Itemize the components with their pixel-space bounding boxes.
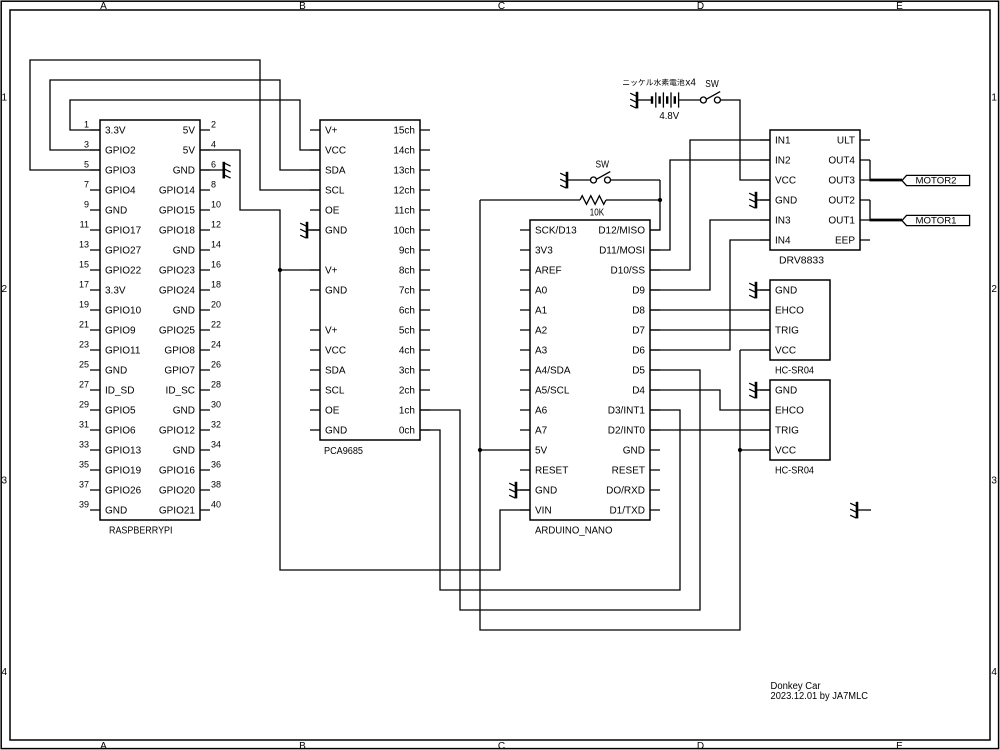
svg-text:DO/RXD: DO/RXD [606, 486, 645, 497]
svg-text:GND: GND [325, 426, 347, 437]
svg-text:ID_SD: ID_SD [105, 386, 134, 397]
IC PCA9685 body [320, 120, 420, 440]
IC DRV8833 pin stubs [760, 140, 870, 240]
ground symbol at RASPBERRYPI pin6 [224, 162, 231, 179]
svg-text:VCC: VCC [775, 446, 796, 457]
svg-text:HC-SR04: HC-SR04 [775, 365, 814, 376]
junction dot battery net at PCA9685 V+ [278, 268, 282, 272]
svg-text:1ch: 1ch [399, 406, 415, 417]
wire SW2 ground lead [568, 179, 590, 181]
ground symbol floating near E3 [850, 502, 871, 519]
svg-text:10ch: 10ch [393, 226, 415, 237]
wire net CH1: PCA9685 1ch to ARDUINO D5 [420, 370, 700, 610]
svg-text:GPIO27: GPIO27 [105, 246, 142, 257]
svg-text:8ch: 8ch [399, 266, 415, 277]
svg-text:A: A [100, 1, 107, 12]
svg-text:A1: A1 [535, 306, 548, 317]
svg-text:GPIO13: GPIO13 [105, 446, 142, 457]
svg-text:D2/INT0: D2/INT0 [608, 426, 646, 437]
svg-text:ULT: ULT [837, 136, 855, 147]
svg-text:3.3V: 3.3V [105, 286, 126, 297]
svg-text:A4/SDA: A4/SDA [535, 366, 571, 377]
wire battery positive to SW1 [679, 99, 701, 101]
svg-text:GPIO9: GPIO9 [105, 326, 136, 337]
svg-text:GPIO23: GPIO23 [159, 266, 196, 277]
wire net SCL: RASPBERRYPI pin5 GPIO3 to PCA9685 SCL [30, 60, 320, 190]
svg-text:RESET: RESET [612, 466, 645, 477]
IC RASPBERRYPI pin numbers [79, 119, 221, 509]
svg-text:3: 3 [991, 475, 997, 486]
svg-text:DRV8833: DRV8833 [779, 255, 824, 266]
svg-text:SW: SW [705, 79, 719, 90]
wire DRV8833 OUT2 to MOTOR1 bus [869, 200, 871, 220]
svg-text:26: 26 [211, 359, 221, 369]
svg-text:A3: A3 [535, 346, 548, 357]
ground symbol at ARDUINO GND left [509, 482, 516, 499]
ground symbol at battery negative [630, 92, 637, 109]
svg-text:V+: V+ [325, 126, 338, 137]
svg-text:TRIG: TRIG [775, 326, 799, 337]
svg-text:2: 2 [2, 284, 8, 295]
svg-text:GPIO10: GPIO10 [105, 306, 142, 317]
resistor R 10K [580, 196, 606, 205]
svg-text:33: 33 [79, 439, 89, 449]
svg-text:A5/SCL: A5/SCL [535, 386, 570, 397]
label nickel-metal hydride battery x4 [623, 79, 684, 86]
svg-text:A0: A0 [535, 286, 548, 297]
wire net ECHO1: ARDUINO D8 to HC-SR04 upper EHCO [650, 309, 770, 311]
svg-text:IN3: IN3 [775, 216, 791, 227]
svg-text:RESET: RESET [535, 466, 568, 477]
svg-text:4.8V: 4.8V [659, 111, 679, 122]
junction dot D12/MISO net [658, 198, 662, 202]
svg-text:GND: GND [173, 246, 195, 257]
svg-text:D10/SS: D10/SS [611, 266, 646, 277]
svg-text:B: B [299, 741, 306, 750]
svg-text:38: 38 [211, 479, 221, 489]
junction dot +5V at ARDUINO 5V [478, 448, 482, 452]
svg-text:25: 25 [79, 359, 89, 369]
wire DRV8833 OUT4 to MOTOR2 bus [869, 160, 871, 180]
svg-text:27: 27 [79, 379, 89, 389]
wire net IN1: ARDUINO D10/SS to DRV8833 IN1 [650, 140, 770, 270]
svg-text:4: 4 [211, 139, 216, 149]
IC RASPBERRYPI pin stubs [90, 130, 210, 510]
svg-text:15ch: 15ch [393, 126, 415, 137]
svg-text:10: 10 [211, 199, 221, 209]
svg-text:13: 13 [79, 239, 89, 249]
junction dot +5V at HC-SR04 lower VCC [738, 448, 742, 452]
svg-text:GND: GND [105, 506, 127, 517]
svg-text:11ch: 11ch [394, 206, 415, 217]
IC HC-SR04 lower pin stubs [760, 390, 770, 450]
wire battery negative lead [638, 99, 652, 101]
IC ARDUINO_NANO pin names [535, 226, 645, 517]
wire net IN2: ARDUINO D11/MOSI to DRV8833 IN2 [650, 160, 770, 250]
svg-text:IN1: IN1 [775, 136, 791, 147]
svg-text:6ch: 6ch [399, 306, 415, 317]
svg-text:15: 15 [79, 259, 89, 269]
svg-text:C: C [498, 1, 505, 12]
svg-text:OUT1: OUT1 [828, 216, 855, 227]
wire net SDA: RASPBERRYPI pin3 GPIO2 to PCA9685 SDA [50, 80, 320, 170]
svg-text:30: 30 [211, 399, 221, 409]
svg-text:GPIO25: GPIO25 [159, 326, 196, 337]
wire HC-SR04 lower GND to ground [757, 389, 770, 391]
svg-text:GND: GND [775, 386, 797, 397]
svg-text:SCK/D13: SCK/D13 [535, 226, 577, 237]
svg-text:3: 3 [2, 475, 8, 486]
svg-text:SW: SW [596, 160, 610, 171]
svg-text:ARDUINO_NANO: ARDUINO_NANO [535, 526, 613, 537]
svg-text:GND: GND [775, 286, 797, 297]
IC DRV8833 pin names [775, 136, 855, 247]
svg-text:4: 4 [2, 667, 8, 678]
svg-text:D11/MOSI: D11/MOSI [599, 246, 645, 257]
svg-text:31: 31 [79, 419, 89, 429]
svg-text:EHCO: EHCO [775, 306, 804, 317]
svg-text:x4: x4 [685, 77, 696, 88]
svg-text:37: 37 [79, 479, 89, 489]
wire RASPBERRYPI pin6 GND to ground [200, 169, 223, 171]
svg-text:SCL: SCL [325, 186, 345, 197]
svg-text:12ch: 12ch [393, 186, 415, 197]
IC HC-SR04 upper pin stubs [760, 290, 770, 350]
svg-text:32: 32 [211, 419, 221, 429]
net flag MOTOR1 [902, 215, 970, 226]
wire net 3V3: RASPBERRYPI pin1 3.3V to PCA9685 VCC [70, 100, 320, 150]
svg-text:5V: 5V [535, 446, 548, 457]
svg-text:10K: 10K [590, 208, 605, 219]
svg-text:D3/INT1: D3/INT1 [608, 406, 646, 417]
svg-text:RASPBERRYPI: RASPBERRYPI [109, 526, 173, 537]
wire net CH0: PCA9685 0ch to ARDUINO D3/INT1 [420, 410, 680, 590]
svg-text:GPIO26: GPIO26 [105, 486, 142, 497]
IC HC-SR04 lower body [770, 380, 830, 460]
svg-text:9ch: 9ch [399, 246, 415, 257]
svg-text:VCC: VCC [325, 146, 346, 157]
svg-text:29: 29 [79, 399, 89, 409]
svg-text:21: 21 [79, 319, 89, 329]
IC PCA9685 pin names [325, 126, 415, 437]
wire net +5V logic: 10K resistor to ARDUINO 5V and HC-SR04 VCC [480, 200, 770, 630]
svg-text:GPIO3: GPIO3 [105, 166, 136, 177]
svg-text:GPIO15: GPIO15 [159, 206, 196, 217]
svg-text:E: E [896, 741, 903, 750]
svg-text:D8: D8 [632, 306, 645, 317]
svg-text:A: A [100, 741, 107, 750]
svg-text:4: 4 [991, 667, 997, 678]
bus wire MOTOR2 [870, 179, 903, 182]
svg-text:VCC: VCC [775, 176, 796, 187]
svg-text:GND: GND [173, 306, 195, 317]
svg-text:GPIO5: GPIO5 [105, 406, 136, 417]
net flag MOTOR2 [902, 175, 970, 186]
svg-text:GND: GND [325, 286, 347, 297]
svg-text:B: B [299, 1, 306, 12]
IC ARDUINO_NANO pin stubs [520, 230, 660, 510]
svg-text:19: 19 [79, 299, 89, 309]
svg-text:OE: OE [325, 406, 340, 417]
wire net IN3: ARDUINO D9 to DRV8833 IN3 [650, 220, 770, 290]
svg-text:0ch: 0ch [399, 426, 415, 437]
svg-text:SDA: SDA [325, 166, 346, 177]
svg-text:TRIG: TRIG [775, 426, 799, 437]
ground symbol at PCA9685 GND 10ch [300, 222, 307, 239]
svg-text:GPIO4: GPIO4 [105, 186, 136, 197]
svg-text:MOTOR2: MOTOR2 [916, 176, 957, 187]
IC RASPBERRYPI body [100, 120, 200, 520]
svg-text:40: 40 [211, 499, 221, 509]
svg-text:EHCO: EHCO [775, 406, 804, 417]
ground symbol at HC-SR04 upper GND [749, 282, 756, 299]
svg-text:HC-SR04: HC-SR04 [775, 465, 814, 476]
svg-text:GND: GND [173, 406, 195, 417]
svg-text:D5: D5 [632, 366, 645, 377]
svg-text:22: 22 [211, 319, 221, 329]
svg-text:V+: V+ [325, 266, 338, 277]
wire PCA9685 GND to ground [308, 229, 320, 231]
svg-text:GPIO6: GPIO6 [105, 426, 136, 437]
svg-text:5ch: 5ch [399, 326, 415, 337]
wire SW1 to DRV8833 VCC [721, 100, 770, 180]
svg-text:2023.12.01 by JA7MLC: 2023.12.01 by JA7MLC [771, 691, 869, 702]
svg-text:C: C [498, 741, 505, 750]
svg-text:IN4: IN4 [775, 236, 791, 247]
svg-text:A7: A7 [535, 426, 548, 437]
switch SW1 [700, 92, 720, 103]
svg-text:35: 35 [79, 459, 89, 469]
wire ARDUINO GND to ground [517, 489, 530, 491]
svg-text:VIN: VIN [535, 506, 552, 517]
wire net +5V battery: RASPBERRYPI pin4 5V / PCA9685 V+ / ARDUINO VIN [200, 150, 530, 570]
svg-text:36: 36 [211, 459, 221, 469]
svg-text:GND: GND [173, 166, 195, 177]
wire net ECHO2: ARDUINO D4 to HC-SR04 lower EHCO [650, 390, 770, 410]
IC HC-SR04 upper body [770, 280, 830, 360]
svg-text:SCL: SCL [325, 386, 345, 397]
svg-text:GND: GND [535, 486, 557, 497]
svg-text:1: 1 [991, 92, 997, 103]
svg-text:D6: D6 [632, 346, 645, 357]
bus wire MOTOR1 [870, 219, 903, 222]
svg-text:7: 7 [84, 179, 89, 189]
svg-text:3ch: 3ch [399, 366, 415, 377]
battery BT 4.8V NiMH x4 [652, 92, 679, 107]
svg-text:D: D [697, 1, 704, 12]
svg-text:5V: 5V [183, 146, 196, 157]
svg-text:23: 23 [79, 339, 89, 349]
svg-text:24: 24 [211, 339, 221, 349]
svg-text:GPIO21: GPIO21 [159, 506, 196, 517]
IC ARDUINO_NANO body [530, 220, 650, 520]
svg-text:GPIO22: GPIO22 [105, 266, 142, 277]
svg-text:A6: A6 [535, 406, 548, 417]
svg-text:GPIO7: GPIO7 [164, 366, 195, 377]
svg-text:14: 14 [211, 239, 221, 249]
svg-text:5: 5 [84, 159, 89, 169]
svg-text:GPIO11: GPIO11 [105, 346, 141, 357]
svg-text:GND: GND [173, 446, 195, 457]
svg-text:20: 20 [211, 299, 221, 309]
svg-text:GPIO24: GPIO24 [159, 286, 196, 297]
svg-text:OE: OE [325, 206, 340, 217]
IC HC-SR04 lower pin names [775, 386, 804, 457]
svg-text:6: 6 [211, 159, 216, 169]
IC DRV8833 body [770, 130, 860, 250]
wire net TRIG1: ARDUINO D7 to HC-SR04 upper TRIG [650, 329, 770, 331]
svg-text:2: 2 [991, 284, 997, 295]
svg-text:GPIO2: GPIO2 [105, 146, 136, 157]
svg-text:VCC: VCC [775, 346, 796, 357]
svg-text:D4: D4 [632, 386, 645, 397]
wire DRV8833 GND to ground [757, 199, 770, 201]
svg-text:17: 17 [79, 279, 89, 289]
svg-text:PCA9685: PCA9685 [324, 446, 363, 457]
svg-text:OUT4: OUT4 [828, 156, 855, 167]
switch SW2 [591, 172, 611, 183]
svg-text:OUT3: OUT3 [828, 176, 855, 187]
svg-text:GPIO20: GPIO20 [159, 486, 196, 497]
svg-text:5V: 5V [183, 126, 196, 137]
svg-text:13ch: 13ch [393, 166, 415, 177]
wire SW2 to D12/MISO net [611, 179, 660, 181]
svg-text:AREF: AREF [535, 266, 562, 277]
svg-text:ID_SC: ID_SC [166, 386, 195, 397]
svg-text:GPIO14: GPIO14 [159, 186, 196, 197]
svg-text:8: 8 [211, 179, 216, 189]
svg-text:7ch: 7ch [399, 286, 415, 297]
svg-text:E: E [896, 1, 903, 12]
svg-text:D7: D7 [632, 326, 645, 337]
ground symbol at HC-SR04 lower GND [749, 382, 756, 399]
svg-text:16: 16 [211, 259, 221, 269]
svg-text:28: 28 [211, 379, 221, 389]
svg-text:4ch: 4ch [399, 346, 415, 357]
svg-text:OUT2: OUT2 [828, 196, 855, 207]
svg-text:GPIO18: GPIO18 [159, 226, 196, 237]
svg-text:D1/TXD: D1/TXD [609, 506, 645, 517]
ground symbol at switch SW2 [560, 172, 567, 189]
ground symbol at DRV8833 GND [749, 192, 756, 209]
wire HC-SR04 upper GND to ground [757, 289, 770, 291]
svg-text:A2: A2 [535, 326, 548, 337]
svg-text:GND: GND [775, 196, 797, 207]
IC RASPBERRYPI pin names [105, 126, 195, 517]
svg-text:V+: V+ [325, 326, 338, 337]
svg-text:EEP: EEP [835, 236, 855, 247]
svg-text:GND: GND [325, 226, 347, 237]
svg-text:3: 3 [84, 139, 89, 149]
wire net IN4: ARDUINO D6 to DRV8833 IN4 [650, 240, 770, 350]
svg-text:11: 11 [80, 219, 89, 229]
svg-text:GPIO16: GPIO16 [159, 466, 196, 477]
svg-text:D12/MISO: D12/MISO [598, 226, 645, 237]
svg-text:2: 2 [211, 119, 216, 129]
svg-text:18: 18 [211, 279, 221, 289]
svg-text:GPIO17: GPIO17 [105, 226, 142, 237]
svg-text:1: 1 [84, 119, 89, 129]
svg-text:14ch: 14ch [393, 146, 415, 157]
svg-text:12: 12 [211, 219, 221, 229]
svg-text:3.3V: 3.3V [105, 126, 126, 137]
wire 10K resistor left lead [480, 199, 580, 201]
svg-text:GPIO8: GPIO8 [164, 346, 195, 357]
svg-text:3V3: 3V3 [535, 246, 553, 257]
IC PCA9685 pin stubs [310, 130, 430, 430]
svg-text:GND: GND [623, 446, 645, 457]
title block text [771, 681, 869, 702]
svg-text:IN2: IN2 [775, 156, 791, 167]
IC HC-SR04 upper pin names [775, 286, 804, 357]
svg-text:39: 39 [79, 499, 89, 509]
svg-text:GND: GND [105, 366, 127, 377]
svg-text:9: 9 [84, 199, 89, 209]
svg-text:GPIO19: GPIO19 [105, 466, 142, 477]
svg-text:34: 34 [211, 439, 221, 449]
wire net TRIG2: ARDUINO D2/INT0 to HC-SR04 lower TRIG [650, 429, 770, 431]
svg-text:GND: GND [105, 206, 127, 217]
svg-text:GPIO12: GPIO12 [159, 426, 196, 437]
svg-text:D: D [697, 741, 704, 750]
svg-text:2ch: 2ch [399, 386, 415, 397]
svg-text:1: 1 [2, 92, 8, 103]
wire 10K resistor right lead to ARDUINO D12/MISO [606, 180, 660, 230]
svg-text:SDA: SDA [325, 366, 346, 377]
svg-text:VCC: VCC [325, 346, 346, 357]
svg-text:D9: D9 [632, 286, 645, 297]
svg-text:MOTOR1: MOTOR1 [916, 216, 957, 227]
